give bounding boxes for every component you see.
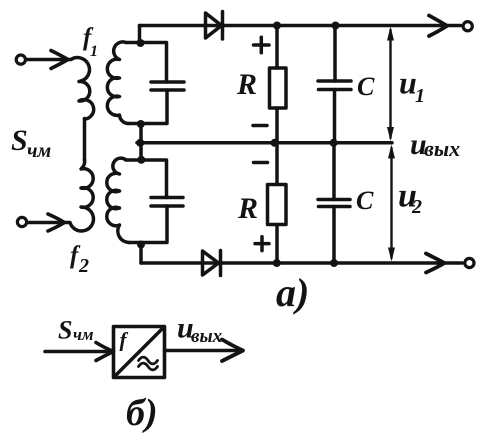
svg-text:R: R <box>237 192 258 225</box>
svg-text:1: 1 <box>90 43 98 60</box>
svg-text:S: S <box>11 124 28 157</box>
svg-text:чм: чм <box>27 140 51 162</box>
svg-text:C: C <box>357 72 375 101</box>
svg-text:R: R <box>236 68 257 101</box>
svg-text:S: S <box>58 316 72 345</box>
svg-text:а): а) <box>276 270 309 315</box>
svg-text:чм: чм <box>73 325 94 344</box>
svg-text:2: 2 <box>78 255 89 277</box>
svg-text:C: C <box>356 186 374 215</box>
svg-text:f: f <box>120 328 129 352</box>
svg-text:вых: вых <box>424 136 460 161</box>
svg-text:вых: вых <box>191 326 223 347</box>
svg-text:2: 2 <box>411 196 422 218</box>
svg-text:б): б) <box>126 392 158 434</box>
svg-text:1: 1 <box>415 85 425 107</box>
